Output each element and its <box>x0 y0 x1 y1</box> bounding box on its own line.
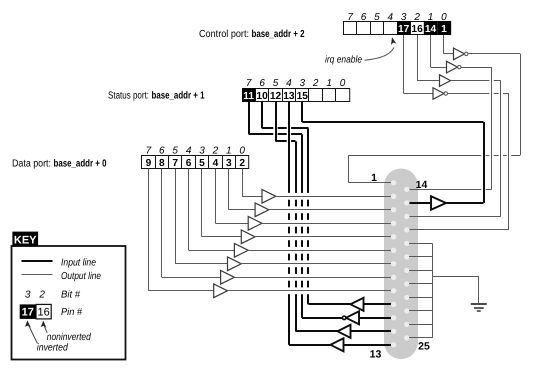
connector pins 1-13 (left column) <box>391 180 396 347</box>
svg-text:base_addr + 0: base_addr + 0 <box>54 158 107 169</box>
svg-text:17: 17 <box>22 307 34 319</box>
key: arrow to inverted cell <box>25 320 38 343</box>
svg-text:Status port:: Status port: <box>108 90 149 101</box>
wire: control bit 1 output across (gaps at crossings) <box>461 67 492 69</box>
svg-text:2: 2 <box>312 78 319 89</box>
inverter for control bit 1 <box>447 61 461 73</box>
wire: control bit 1 down from register <box>431 35 447 68</box>
wire: pin-10 status drop line <box>307 128 309 304</box>
buffer for data bit 3 (drives pin 5) <box>241 230 255 244</box>
wire: data bit 0 from register down to buffer row (pin 2) <box>242 169 262 197</box>
wire: pin-11 status drop line <box>301 134 303 317</box>
wire: status bit 3 right-side drop to pin-15 row <box>483 122 485 203</box>
wire: data bit 4 from register down to buffer row (pin 6) <box>189 169 235 251</box>
label: Data port base_addr+0 <box>12 158 107 169</box>
svg-text:2: 2 <box>413 12 420 23</box>
svg-text:3: 3 <box>401 12 407 23</box>
svg-text:10: 10 <box>256 91 268 102</box>
svg-text:13: 13 <box>283 91 295 102</box>
svg-text:6: 6 <box>159 145 165 156</box>
svg-text:0: 0 <box>441 12 447 23</box>
wire: control bit 0 loop around to pin 1 <box>349 54 521 183</box>
svg-text:25: 25 <box>418 341 430 353</box>
connector pin label 13 <box>370 349 382 361</box>
key title tab <box>12 232 38 247</box>
wire: data bit 2 from register down to buffer row (pin 4) <box>215 169 248 224</box>
svg-text:1: 1 <box>441 24 447 35</box>
buffer for data bit 0 (drives pin 2) <box>262 190 276 204</box>
wire: control bit 2 drop on right side <box>500 81 502 217</box>
wire: data bit 3 from register down to buffer row (pin 5) <box>202 169 242 237</box>
svg-text:base_addr + 1: base_addr + 1 <box>152 90 205 101</box>
wire: control bit 2 down from register <box>417 35 439 81</box>
key: noninverted label <box>47 332 91 343</box>
wire: pin-12 status drop line <box>295 141 297 331</box>
wire: status line from drop to pin-12 receiver <box>296 330 338 332</box>
svg-text:5: 5 <box>199 158 205 169</box>
wire: buffer output to connector pin 2 <box>275 196 392 198</box>
wire: status bit 5 jog over to pin-12 drop line <box>276 140 296 142</box>
wire: pin-13 status drop line (dashed where it crosses data lines) <box>288 102 290 345</box>
wire: pin 12 to receiver input <box>351 330 392 332</box>
connector pins 14-25 (right column) <box>404 187 409 341</box>
key: inverted label <box>37 343 68 354</box>
svg-text:8: 8 <box>159 158 165 169</box>
ground bus vertical <box>432 243 434 338</box>
key: Bit # label <box>61 289 80 300</box>
label: Status port base_addr+1 <box>108 90 205 101</box>
wire: control bit 0 output across (gaps at crossings) <box>468 53 520 55</box>
svg-text:3: 3 <box>300 78 306 89</box>
svg-text:12: 12 <box>270 91 282 102</box>
inverter for control bit 0 <box>454 48 468 60</box>
wire: buffer output to connector pin 5 <box>254 236 391 238</box>
status port bit numbers 7..0 <box>246 78 346 89</box>
receiver buffer for status pin 13 <box>331 338 344 351</box>
irq enable label <box>325 54 362 65</box>
wire: pin 13 to receiver input <box>344 344 392 346</box>
receiver buffer for status pin 10 <box>351 298 364 311</box>
buffer for data bit 6 (drives pin 8) <box>221 271 235 285</box>
buffer for control bit 2 <box>440 75 451 87</box>
svg-text:3: 3 <box>199 145 205 156</box>
control port register (base_addr+2), cells show pin numbers <box>344 21 451 35</box>
svg-text:4: 4 <box>286 78 292 89</box>
wire: status bit 5 (pin 12) down from register <box>275 102 277 142</box>
svg-text:11: 11 <box>243 91 254 102</box>
svg-text:9: 9 <box>146 158 152 169</box>
receiver buffer for status pin 11 (inverting) <box>342 311 359 324</box>
key: Pin # label <box>61 307 82 318</box>
wire: buffer output to connector pin 7 <box>241 263 392 265</box>
svg-text:14: 14 <box>425 24 437 35</box>
wire: status bit 7 jog over to pin-11 drop line (gaps at crossings) <box>249 133 302 135</box>
wire: control bit 0 down from register <box>444 35 454 54</box>
wire: data bit 7 from register down to buffer row (pin 9) <box>148 169 213 291</box>
key: bit number samples 3 2 <box>25 289 46 300</box>
key: Input line label <box>61 257 96 268</box>
buffer for data bit 4 (drives pin 6) <box>234 244 248 258</box>
svg-text:6: 6 <box>186 158 192 169</box>
svg-text:6: 6 <box>361 12 367 23</box>
svg-text:5: 5 <box>172 145 178 156</box>
buffer for data bit 2 (drives pin 4) <box>248 217 262 231</box>
svg-text:inverted: inverted <box>37 343 68 354</box>
wire: control bit 3 drop on right side <box>508 94 510 230</box>
wire: control bit 1 drop on right side <box>491 67 493 189</box>
svg-text:irq enable: irq enable <box>325 54 362 65</box>
svg-text:noninverted: noninverted <box>47 332 91 343</box>
svg-text:16: 16 <box>37 307 49 319</box>
receiver buffer for status pin 15 <box>409 196 484 210</box>
svg-text:7: 7 <box>347 12 353 23</box>
wire: status bit 3 across to right side <box>302 121 483 123</box>
svg-text:3: 3 <box>226 158 232 169</box>
wire: status line from drop to pin-11 receiver <box>302 317 342 319</box>
svg-text:16: 16 <box>411 24 423 35</box>
key: output line sample <box>22 274 53 276</box>
DB-25 connector body <box>384 169 418 360</box>
wire: data bit 5 from register down to buffer row (pin 7) <box>175 169 227 264</box>
svg-text:0: 0 <box>340 78 346 89</box>
label: Control port base_addr+2 <box>199 29 305 40</box>
wire: control bit 3 down from register <box>404 35 434 94</box>
svg-text:0: 0 <box>239 145 245 156</box>
irq enable pointer arrow to control bit 4 <box>365 37 397 60</box>
wire: buffer output to connector pin 6 <box>247 250 391 252</box>
wire: control bit 2 into connector pin <box>409 216 501 218</box>
buffer for data bit 5 (drives pin 7) <box>228 257 242 271</box>
ground symbol <box>471 304 487 311</box>
wire: buffer output to connector pin 4 <box>261 223 391 225</box>
control port bit numbers 7..0 <box>347 12 447 23</box>
wire: buffer output to connector pin 9 <box>227 290 392 292</box>
data port register (base_addr+0), cells show pin numbers 9..2 <box>142 156 249 169</box>
svg-text:4: 4 <box>388 12 394 23</box>
svg-text:5: 5 <box>374 12 380 23</box>
svg-text:1: 1 <box>326 78 332 89</box>
svg-text:5: 5 <box>273 78 279 89</box>
buffer for data bit 1 (drives pin 3) <box>255 203 269 217</box>
wire: status bit 6 (pin 10) down from register <box>261 102 263 129</box>
svg-text:Control port:: Control port: <box>199 29 249 40</box>
svg-text:Bit #: Bit # <box>61 289 80 300</box>
key: pin number sample cells 17 16 <box>20 304 52 319</box>
wire: pin 11 to receiver input <box>359 317 392 319</box>
buffer for data bit 7 (drives pin 9) <box>214 284 228 298</box>
wire: ground bus to ground symbol <box>433 277 479 304</box>
wire: data bit 6 from register down to buffer row (pin 8) <box>162 169 221 278</box>
svg-text:7: 7 <box>246 78 252 89</box>
svg-text:2: 2 <box>38 289 45 300</box>
key: Output line label <box>61 271 101 282</box>
wire: buffer output to connector pin 8 <box>234 277 392 279</box>
key box <box>12 246 126 360</box>
svg-text:6: 6 <box>259 78 265 89</box>
receiver buffer for status pin 12 <box>338 325 351 338</box>
connector pin label 14 <box>416 179 428 191</box>
svg-text:Output line: Output line <box>61 271 101 282</box>
data port bit numbers 7..0 <box>146 145 246 156</box>
svg-text:1: 1 <box>226 145 232 156</box>
svg-text:13: 13 <box>370 349 382 361</box>
wire: control bit 2 output across (gaps at crossings) <box>451 80 501 82</box>
wire: status bit 3 (pin 15) down from register <box>301 102 303 122</box>
wire: control bit 3 into connector pin <box>409 229 509 231</box>
key: input line sample <box>22 260 53 262</box>
connector pin label 1 <box>371 172 377 184</box>
wire: buffer output to connector pin 3 <box>268 209 392 211</box>
svg-text:1: 1 <box>428 12 434 23</box>
wires: ground pins 18-25 to bus <box>409 244 433 338</box>
wire: control bit 1 into connector pin <box>409 189 492 191</box>
status port register (base_addr+1), cells show pin numbers <box>242 88 350 102</box>
wire: data bit 1 from register down to buffer row (pin 3) <box>229 169 256 210</box>
svg-text:7: 7 <box>146 145 152 156</box>
svg-text:2: 2 <box>239 158 245 169</box>
svg-text:4: 4 <box>213 158 219 169</box>
svg-text:17: 17 <box>398 24 410 35</box>
svg-text:7: 7 <box>172 158 178 169</box>
svg-text:15: 15 <box>297 91 309 102</box>
wire: control bit 3 output across (gaps at crossings) <box>448 93 510 95</box>
svg-text:KEY: KEY <box>14 234 37 246</box>
wire: status line from drop to pin-13 receiver <box>289 344 331 346</box>
svg-text:Input line: Input line <box>61 257 96 268</box>
svg-text:2: 2 <box>212 145 219 156</box>
svg-text:Data port:: Data port: <box>12 158 51 169</box>
inverter for control bit 3 <box>433 88 447 100</box>
wire: pin 10 to receiver input <box>364 303 392 305</box>
wire: status bit 7 (pin 11) down from register <box>248 102 250 135</box>
key: arrow to noninverted cell <box>41 321 47 333</box>
wire: status line from drop to pin-10 receiver <box>309 303 351 305</box>
svg-text:4: 4 <box>186 145 192 156</box>
svg-text:Pin #: Pin # <box>61 307 82 318</box>
connector pin label 25 <box>418 341 430 353</box>
svg-text:3: 3 <box>25 289 31 300</box>
svg-text:base_addr + 2: base_addr + 2 <box>252 29 305 40</box>
wire: status bit 6 jog over to pin-10 drop line <box>262 127 308 129</box>
